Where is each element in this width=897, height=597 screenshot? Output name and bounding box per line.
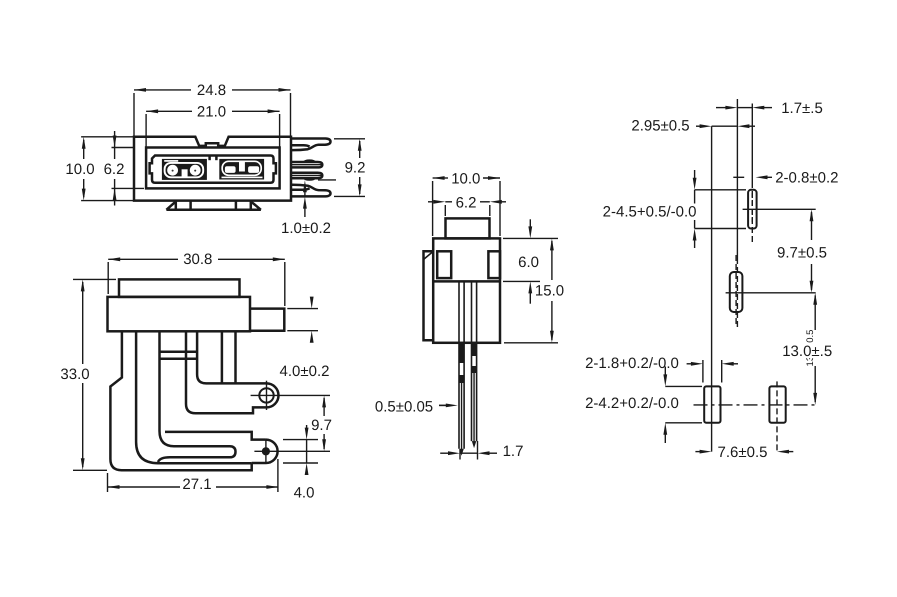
svg-text:9.7: 9.7 (311, 417, 332, 434)
svg-text:4.0: 4.0 (294, 484, 315, 501)
svg-text:24.8: 24.8 (197, 82, 226, 99)
svg-text:7.6±0.5: 7.6±0.5 (718, 444, 768, 461)
svg-text:2-0.8±0.2: 2-0.8±0.2 (775, 170, 838, 187)
svg-text:0.5±0.05: 0.5±0.05 (375, 398, 433, 415)
svg-text:6.2: 6.2 (104, 161, 125, 178)
svg-text:9.2: 9.2 (345, 160, 366, 177)
svg-text:2-4.2+0.2/-0.0: 2-4.2+0.2/-0.0 (585, 395, 679, 412)
svg-text:6.2: 6.2 (456, 195, 477, 212)
svg-text:2-4.5+0.5/-0.0: 2-4.5+0.5/-0.0 (603, 204, 697, 221)
svg-text:10.0: 10.0 (65, 161, 94, 178)
svg-text:6.0: 6.0 (518, 254, 539, 271)
svg-text:1.7: 1.7 (503, 443, 524, 460)
svg-text:13.0±.5: 13.0±.5 (782, 343, 832, 360)
svg-text:1.0±0.2: 1.0±0.2 (281, 220, 331, 237)
svg-text:27.1: 27.1 (182, 476, 211, 493)
svg-text:15.0: 15.0 (535, 282, 564, 299)
svg-text:1.7±.5: 1.7±.5 (781, 100, 823, 117)
svg-text:4.0±0.2: 4.0±0.2 (280, 363, 330, 380)
svg-text:2.95±0.5: 2.95±0.5 (631, 118, 689, 135)
svg-text:10.0: 10.0 (451, 170, 480, 187)
svg-text:30.8: 30.8 (183, 251, 212, 268)
svg-text:33.0: 33.0 (60, 366, 89, 383)
svg-text:21.0: 21.0 (197, 103, 226, 120)
svg-text:9.7±0.5: 9.7±0.5 (777, 244, 827, 261)
